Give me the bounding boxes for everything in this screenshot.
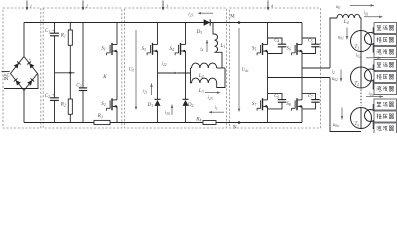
wire S1 drain to bus [116,23,118,45]
stage arrow 4 [267,1,269,8]
capacitor C3 DC-link [82,23,84,88]
capacitor C5 snubber [302,38,316,44]
wire T2 primary through [360,67,362,88]
current annotation i30 [171,105,173,116]
voltage annotation u001 [346,28,348,40]
MOSFET S7 [260,100,262,108]
wire bridge negative output riser [23,91,25,123]
svg-text:M: M [230,15,235,20]
wire mid divider node [55,72,75,74]
wire S3 source down [157,51,159,99]
svg-text:K: K [102,75,107,80]
MOSFET S2 [109,100,111,108]
svg-text:i02: i02 [356,53,361,58]
voltage arrow U_b (stage-3 input) [135,30,137,107]
current annotation i1 (return) [210,111,224,113]
wire D3 to inductor L1 [213,23,215,35]
current annotation i23 bottom [205,92,218,94]
capacitor C1 (electrolytic) [54,23,56,34]
junction dot mid divider [69,72,71,74]
resistor R2 [69,73,71,99]
svg-text:i4: i4 [200,47,203,52]
wire L4 to T1 [360,18,361,31]
diode D1 [155,98,161,100]
voltage annotation u002 [340,70,342,82]
current annotation i4 [206,40,208,52]
MOSFET S6 [294,45,296,53]
bridge diode top-right [29,63,34,69]
wire S3 drain to bus [157,23,159,45]
svg-text:N: N [233,125,237,130]
node N [238,121,241,124]
transformer T1 secondary circle [365,33,377,45]
svg-text:1: 1 [30,3,32,8]
transformer Tn secondary circle [365,110,377,122]
wire S4 source down [185,51,187,99]
wire T1 primary through [360,31,362,52]
svg-text:T1: T1 [355,45,360,50]
wire top DC bus [24,22,204,24]
capacitor C7 snubber [302,93,316,99]
wire riser to L4 [330,18,337,68]
svg-text:+: + [52,92,55,97]
wire bottom DC bus [24,122,94,124]
inductor L3 (magnetising) [191,82,192,84]
voltage annotation u00n [341,108,343,120]
svg-text:i01: i01 [364,11,369,16]
wire L3 right end link [217,68,225,88]
svg-text:i23: i23 [208,96,213,101]
regulator box unit 1 [374,35,397,46]
wire inverter right leg [301,23,303,45]
filter box unit 2 [374,84,397,95]
svg-text:IN: IN [4,76,8,81]
MOSFET S8 [294,100,296,108]
current annotation i21 [151,84,153,96]
svg-text:i2: i2 [332,70,335,75]
svg-text:+: + [29,59,32,64]
inductor L1 [215,34,218,52]
svg-text:+: + [52,27,55,32]
node M [238,21,241,24]
stage box 2 (DC link / buffer) dashed border [43,8,122,128]
wire AC return [4,75,38,89]
dotted continuation between T2 and Tn [360,90,362,106]
svg-text:Tn: Tn [355,122,360,127]
svg-text:i1: i1 [215,106,218,111]
inductor L2 (resonant) [191,67,192,69]
svg-text:i0n: i0n [369,92,374,97]
regulator box unit 3 [374,111,397,122]
svg-text:u02: u02 [332,77,338,82]
stage arrow 3 [162,1,164,8]
svg-text:i30: i30 [165,111,170,116]
resistor R3 in return bus [94,120,110,124]
AC input terminal stub [2,71,10,73]
svg-text:Ub: Ub [129,67,135,72]
svg-text:u0: u0 [336,5,340,10]
stage box 1 (rectifier) dashed border [3,8,41,128]
bridge diode bottom-right [27,80,32,86]
svg-text:u0n: u0n [333,123,339,128]
resistor R4 in return bus [203,121,216,125]
bridge diode bottom-left [16,80,21,86]
stage box 3 (resonant converter) dashed border [125,8,227,128]
bridge diode top-left [14,63,19,69]
wire inverter left leg [267,23,269,45]
voltage arrow U_dc [238,28,240,109]
stage arrow 1 [26,1,28,8]
wire inverter output lower [268,77,331,79]
rectifier box unit 1 [374,23,397,34]
wire bridge positive output riser [23,23,25,57]
svg-text:Udc: Udc [242,68,249,73]
wire half-bridge node K [116,51,118,100]
inductor L4 [337,14,360,18]
regulator box unit 2 [374,72,397,83]
wire tank left side [190,68,192,83]
MOSFET S3 [150,45,152,53]
transformer T2 primary circle [351,67,372,88]
capacitor C2 (electrolytic) [54,73,56,98]
svg-text:i21: i21 [143,90,148,95]
svg-text:T2: T2 [355,82,360,87]
svg-text:i22: i22 [162,62,167,67]
wire S4 drain to bus [185,23,187,45]
capacitor C6 snubber [268,93,283,99]
rectifier box unit 3 [374,99,397,110]
filter box unit 3 [374,123,397,134]
stage box 4 (inverter) dashed border [230,8,321,128]
diode D2 [183,98,189,100]
wire inverter output upper [302,67,330,69]
transformer T1 primary circle [351,31,372,52]
wire Tn secondary leads [373,105,375,112]
svg-text:u01: u01 [338,36,344,41]
transformer Tn primary circle [351,108,372,129]
svg-text:i23: i23 [188,13,193,18]
wire L1 to resonant tank [215,52,223,68]
MOSFET S4 [178,45,180,53]
transformer T2 secondary circle [365,69,377,81]
diode D3 in top bus [204,19,211,25]
resistor R1 [69,23,71,31]
wire switch-node link to transformer [158,72,191,74]
stage arrow 2 [82,1,84,8]
wire Tn primary through [360,108,362,129]
MOSFET S1 [109,45,111,53]
capacitor C4 snubber [268,38,283,44]
wire T1-T2 link [360,52,362,68]
wire T2 secondary leads [373,65,375,71]
wire T1 secondary leads [373,28,375,34]
bridge rectifier BR1 diamond [11,57,38,91]
wire return riser [330,78,361,132]
rectifier box unit 2 [374,60,397,71]
wire S2 source to bus [116,106,118,122]
MOSFET S5 [260,45,262,53]
filter box unit 1 [374,47,397,58]
